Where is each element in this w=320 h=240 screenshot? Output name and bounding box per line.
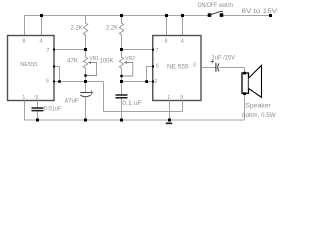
wire IC2 pin 4 drop bbox=[182, 16, 184, 36]
wire speaker bottom to ground rail bbox=[244, 94, 246, 121]
trimmer VR2 100K bbox=[119, 50, 133, 82]
wire VCC top rail right segment bbox=[222, 15, 271, 17]
speaker LS1 cone bbox=[249, 65, 262, 97]
svg-text:8: 8 bbox=[23, 39, 26, 45]
switch S1 blade bbox=[210, 11, 223, 15]
svg-text:47uF: 47uF bbox=[65, 98, 79, 104]
svg-text:NE555: NE555 bbox=[20, 62, 37, 68]
wire IC1 pin 4 drop bbox=[41, 16, 43, 36]
svg-text:2: 2 bbox=[154, 79, 157, 85]
svg-text:Speaker: Speaker bbox=[245, 102, 270, 109]
pin dot U2 pin6 bbox=[152, 66, 154, 68]
svg-text:NE 555: NE 555 bbox=[167, 65, 189, 71]
svg-text:47K: 47K bbox=[67, 58, 78, 64]
wire U2 pin5 riser bbox=[182, 101, 184, 112]
junction dot speaker top bbox=[243, 72, 246, 75]
pin dot U2 pin7 bbox=[152, 49, 154, 51]
ground symbol bbox=[166, 123, 172, 125]
pin dot U2 pin2 bbox=[152, 81, 154, 83]
svg-text:3: 3 bbox=[193, 62, 196, 68]
wire net A to U2 pin5 horizontal bbox=[104, 111, 183, 113]
wire U2 pin3 output left segment bbox=[201, 67, 216, 69]
svg-text:0.01uF: 0.01uF bbox=[44, 106, 62, 112]
pin dot U1 pin6 bbox=[53, 81, 55, 83]
svg-text:8ohm, 0.5W: 8ohm, 0.5W bbox=[242, 112, 276, 119]
junction dot VR2 bottom net B bbox=[120, 80, 123, 83]
svg-text:5: 5 bbox=[180, 95, 183, 101]
wire U2 pin6 stub bbox=[147, 67, 153, 82]
svg-text:7: 7 bbox=[156, 48, 159, 54]
svg-text:2.2K: 2.2K bbox=[71, 26, 83, 32]
junction dot R2/VR2/pin7 bbox=[120, 48, 123, 51]
junction dot R1/VR1/pin7 bbox=[84, 48, 87, 51]
svg-text:4: 4 bbox=[181, 39, 184, 45]
wire net A vertical drop bbox=[103, 82, 105, 112]
wire IC1 pin 8 drop bbox=[24, 16, 26, 36]
wire net B VR2 junction to U2 pin2 bbox=[122, 81, 153, 83]
svg-text:6: 6 bbox=[46, 79, 49, 85]
svg-text:6: 6 bbox=[156, 63, 159, 69]
svg-text:VR1: VR1 bbox=[90, 56, 100, 62]
pin dot U1 pin2 bbox=[53, 66, 55, 68]
junction dot pin2 stub bottom bbox=[58, 80, 61, 83]
wire ground rail bbox=[24, 119, 245, 121]
wire U1 pin6 / net A horizontal bbox=[54, 81, 104, 83]
svg-text:1: 1 bbox=[167, 95, 170, 101]
speaker LS1 body bbox=[242, 73, 249, 93]
wire speaker top drop bbox=[244, 68, 246, 74]
svg-text:4: 4 bbox=[40, 39, 43, 45]
pin dot U1 pin7 bbox=[53, 49, 55, 51]
resistor R2 2.2K right bbox=[119, 16, 123, 50]
junction dot speaker bottom bbox=[243, 92, 246, 95]
svg-text:1uF /15V: 1uF /15V bbox=[212, 55, 236, 61]
svg-text:100K: 100K bbox=[100, 58, 114, 64]
junction dot rail at U2 pin4 bbox=[181, 14, 184, 17]
U2 pin number labels bbox=[154, 39, 196, 101]
svg-text:7: 7 bbox=[47, 48, 50, 54]
wire IC1 pin7 to R1/VR1 junction bbox=[54, 49, 86, 51]
svg-text:1: 1 bbox=[22, 95, 25, 101]
svg-text:0.1 uF: 0.1 uF bbox=[122, 101, 142, 107]
junction dot rail at U2 pin8 bbox=[165, 14, 168, 17]
svg-text:ON/OFF switch: ON/OFF switch bbox=[198, 2, 234, 9]
svg-text:5: 5 bbox=[35, 95, 38, 101]
wire C4 to speaker bbox=[220, 67, 245, 69]
junction dot ground at C1 bbox=[84, 119, 87, 122]
wire IC2 pin 8 drop bbox=[166, 16, 168, 36]
U1 pin number labels bbox=[22, 39, 49, 101]
wire U2 pin1 to ground rail bbox=[169, 101, 171, 121]
junction dot rail at R? x41 bbox=[40, 14, 43, 17]
trimmer VR1 47K bbox=[83, 50, 96, 82]
VR2 wiper arrowhead bbox=[124, 61, 127, 64]
svg-text:6V to 15V: 6V to 15V bbox=[242, 8, 278, 15]
junction dot rail right end bbox=[269, 14, 272, 17]
junction dot VR2 wiper loop join bbox=[120, 75, 122, 77]
wire VCC top rail left segment bbox=[24, 16, 271, 36]
junction dot VR1 bottom net A bbox=[84, 80, 87, 83]
junction dot U2 pin6 stub bbox=[145, 80, 148, 83]
svg-text:VR2: VR2 bbox=[125, 56, 135, 62]
junction dot ground at C3 bbox=[36, 119, 39, 122]
junction dot ground at C2 bbox=[120, 119, 123, 122]
svg-text:2.2K: 2.2K bbox=[106, 26, 118, 32]
IC U1 NE555 box bbox=[8, 36, 55, 101]
wire U1 pin1 to ground rail bbox=[24, 68, 245, 121]
capacitor C4 1uF/15V (polarized) bbox=[211, 60, 219, 72]
capacitor C2 0.1uF bbox=[116, 82, 128, 121]
resistor R1 2.2K left bbox=[83, 16, 87, 50]
capacitor C3 0.01uF bbox=[32, 101, 44, 121]
IC U2 NE 555 box bbox=[153, 36, 201, 101]
svg-text:8: 8 bbox=[165, 39, 168, 45]
wire U1 pin2 stub bbox=[54, 67, 183, 112]
VR1 wiper arrowhead bbox=[88, 61, 91, 64]
junction dot VR1 wiper loop join bbox=[84, 74, 86, 76]
junction dot rail at R2 bbox=[120, 14, 123, 17]
switch S1 ON/OFF contacts bbox=[208, 13, 212, 17]
capacitor C1 47uF (polarized) bbox=[80, 82, 93, 121]
wire R2 junction to IC2 pin7 bbox=[122, 49, 153, 51]
junction dot ground at U2 pin1 bbox=[168, 119, 171, 122]
